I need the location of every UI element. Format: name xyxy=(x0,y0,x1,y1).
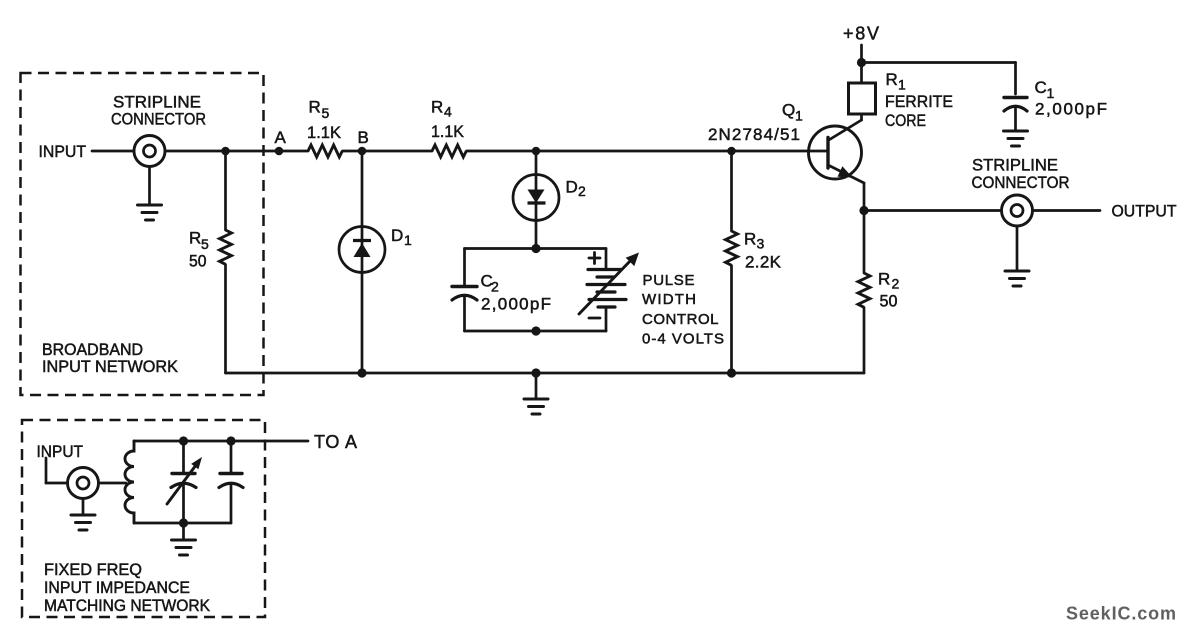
svg-text:Q: Q xyxy=(782,101,795,120)
svg-text:INPUT: INPUT xyxy=(37,442,84,461)
svg-text:BROADBAND: BROADBAND xyxy=(42,341,143,359)
svg-text:R: R xyxy=(309,98,321,117)
svg-text:50: 50 xyxy=(189,252,207,271)
svg-text:CONNECTOR: CONNECTOR xyxy=(972,173,1070,192)
svg-text:TO A: TO A xyxy=(314,432,357,452)
svg-text:3: 3 xyxy=(757,236,765,252)
svg-text:+8V: +8V xyxy=(843,24,879,44)
svg-text:CONTROL: CONTROL xyxy=(642,311,719,328)
svg-text:D: D xyxy=(391,226,403,245)
svg-text:CORE: CORE xyxy=(885,111,926,130)
svg-text:2N2784/51: 2N2784/51 xyxy=(708,125,800,144)
svg-text:D: D xyxy=(566,178,578,197)
svg-text:STRIPLINE: STRIPLINE xyxy=(972,156,1058,175)
svg-text:2: 2 xyxy=(892,276,900,292)
svg-text:INPUT NETWORK: INPUT NETWORK xyxy=(42,358,178,376)
svg-text:2: 2 xyxy=(491,279,499,295)
svg-text:OUTPUT: OUTPUT xyxy=(1112,202,1177,221)
svg-text:INPUT IMPEDANCE: INPUT IMPEDANCE xyxy=(44,579,190,597)
svg-text:MATCHING NETWORK: MATCHING NETWORK xyxy=(44,597,210,615)
svg-text:FIXED FREQ: FIXED FREQ xyxy=(44,561,142,579)
svg-text:1: 1 xyxy=(898,77,906,93)
svg-text:5: 5 xyxy=(201,236,209,252)
svg-text:R: R xyxy=(189,229,201,248)
svg-text:WIDTH: WIDTH xyxy=(642,291,696,308)
svg-text:5: 5 xyxy=(322,105,330,121)
svg-text:1.1K: 1.1K xyxy=(431,122,465,141)
svg-text:A: A xyxy=(275,128,287,147)
svg-text:2: 2 xyxy=(578,183,586,199)
svg-text:2,000pF: 2,000pF xyxy=(1035,100,1107,119)
svg-text:CONNECTOR: CONNECTOR xyxy=(111,110,206,129)
svg-text:1: 1 xyxy=(795,108,803,124)
svg-text:4: 4 xyxy=(444,104,452,120)
svg-text:FERRITE: FERRITE xyxy=(885,92,953,111)
svg-text:C: C xyxy=(1035,78,1047,97)
svg-text:R: R xyxy=(431,98,443,117)
svg-text:2.2K: 2.2K xyxy=(745,253,782,272)
svg-text:SeekIC.com: SeekIC.com xyxy=(1066,604,1176,624)
svg-text:2,000pF: 2,000pF xyxy=(481,295,551,314)
svg-text:1.1K: 1.1K xyxy=(307,123,342,142)
svg-text:INPUT: INPUT xyxy=(39,142,87,161)
svg-text:0-4 VOLTS: 0-4 VOLTS xyxy=(642,331,724,348)
svg-text:PULSE: PULSE xyxy=(643,272,695,289)
svg-text:50: 50 xyxy=(880,292,898,311)
svg-text:R: R xyxy=(744,230,756,249)
svg-text:1: 1 xyxy=(404,232,412,248)
svg-text:B: B xyxy=(358,128,369,147)
svg-text:R: R xyxy=(886,70,898,89)
svg-text:R: R xyxy=(878,270,890,289)
